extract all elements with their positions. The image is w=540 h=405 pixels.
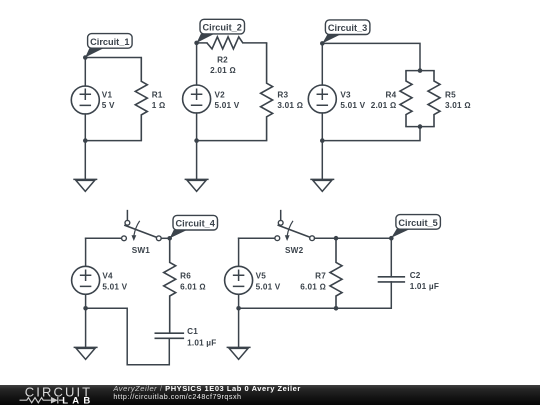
svg-text:Circuit_5: Circuit_5 bbox=[398, 218, 437, 228]
voltage source V2 bbox=[183, 85, 240, 113]
svg-text:1 Ω: 1 Ω bbox=[152, 101, 166, 110]
wire ground lead circuit 1 bbox=[84, 141, 86, 180]
ground circuit 3 bbox=[310, 179, 334, 191]
wire V1 bottom lead bbox=[84, 114, 86, 141]
svg-text:3.01 Ω: 3.01 Ω bbox=[445, 101, 471, 110]
node A3 (top of circuit 3) bbox=[320, 41, 325, 46]
wire C2 bottom lead bbox=[239, 282, 392, 308]
node B1 (bottom of circuit 1) bbox=[83, 138, 88, 143]
wire V5 to switch SW2 bbox=[239, 237, 275, 239]
svg-text:SW1: SW1 bbox=[132, 246, 151, 255]
node B5a (V5 bottom) bbox=[236, 306, 241, 311]
capacitor C1 bbox=[155, 327, 217, 347]
wire bottom rail circuit 2 bbox=[197, 140, 267, 142]
wire ground lead circuit 5 bbox=[238, 308, 240, 347]
svg-text:2.01 Ω: 2.01 Ω bbox=[210, 66, 236, 75]
resistor R1 bbox=[135, 58, 165, 141]
resistor R5 bbox=[428, 71, 471, 127]
wire top rail circuit 3 bbox=[322, 43, 420, 70]
resistor R7 bbox=[300, 238, 342, 308]
svg-text:http://circuitlab.com/c248cf79: http://circuitlab.com/c248cf79rqsxh bbox=[113, 392, 241, 401]
wire ground lead circuit 3 bbox=[321, 141, 323, 180]
resistor R6 bbox=[164, 238, 206, 333]
svg-text:V2: V2 bbox=[215, 90, 226, 99]
node P1 (parallel top) bbox=[418, 68, 423, 73]
svg-text:R4: R4 bbox=[386, 90, 397, 99]
node N5b (circuit 5 flag node) bbox=[389, 236, 394, 241]
label flag Circuit_4 bbox=[170, 215, 218, 238]
svg-text:Circuit_3: Circuit_3 bbox=[328, 23, 367, 33]
svg-text:6.01 Ω: 6.01 Ω bbox=[300, 282, 326, 291]
switch SW2 bbox=[275, 211, 315, 256]
wire parallel bottom bracket bbox=[406, 126, 434, 128]
svg-text:C1: C1 bbox=[187, 327, 198, 336]
svg-text:V1: V1 bbox=[102, 90, 113, 99]
wire R2 left lead bbox=[197, 42, 207, 44]
node A1 (top of circuit 1) bbox=[83, 55, 88, 60]
voltage source V1 bbox=[71, 86, 115, 114]
capacitor C2 bbox=[378, 238, 439, 291]
svg-text:5.01 V: 5.01 V bbox=[340, 101, 365, 110]
wire R2 right lead to right branch bbox=[243, 42, 267, 44]
label flag Circuit_3 bbox=[322, 20, 370, 44]
wire V3 bottom lead bbox=[321, 113, 323, 141]
svg-text:1.01 µF: 1.01 µF bbox=[410, 282, 439, 291]
CircuitLab logo wordmark bbox=[20, 385, 95, 405]
wire V2 bottom lead bbox=[196, 113, 198, 141]
svg-text:V5: V5 bbox=[256, 271, 267, 280]
wire ground lead circuit 2 bbox=[196, 141, 198, 180]
wire V4 top lead bbox=[85, 238, 87, 266]
svg-text:6.01 Ω: 6.01 Ω bbox=[180, 282, 206, 291]
svg-text:C2: C2 bbox=[410, 271, 421, 280]
wire SW1 to node bbox=[161, 237, 170, 239]
voltage source V5 bbox=[225, 266, 281, 294]
svg-text:R1: R1 bbox=[152, 90, 163, 99]
svg-text:R7: R7 bbox=[315, 271, 326, 280]
wire V2 top lead bbox=[196, 43, 198, 85]
wire V4 bottom lead bbox=[85, 294, 87, 308]
label flag Circuit_5 bbox=[391, 215, 440, 238]
label flag Circuit_1 bbox=[85, 34, 132, 58]
wire bottom rail circuit 3 bbox=[322, 127, 420, 141]
resistor R3 bbox=[261, 43, 304, 141]
svg-text:2.01 Ω: 2.01 Ω bbox=[371, 101, 397, 110]
ground circuit 5 bbox=[227, 347, 251, 359]
wire V4 to switch SW1 bbox=[86, 237, 122, 239]
svg-text:Circuit_4: Circuit_4 bbox=[176, 219, 216, 229]
ground circuit 2 bbox=[185, 179, 209, 191]
node B3 (bottom of circuit 3) bbox=[320, 138, 325, 143]
node N4 (circuit 4 flag node) bbox=[167, 236, 172, 241]
svg-text:R3: R3 bbox=[277, 90, 288, 99]
wire top rail circuit 1 bbox=[85, 57, 141, 59]
wire bottom rail circuit 1 bbox=[85, 140, 141, 142]
svg-text:1.01 µF: 1.01 µF bbox=[187, 338, 216, 347]
resistor R4 bbox=[371, 71, 412, 127]
wire C1 bottom return path bbox=[86, 308, 170, 365]
node B2 (bottom of circuit 2) bbox=[194, 138, 199, 143]
wire V5 bottom lead bbox=[238, 294, 240, 308]
resistor R2 bbox=[207, 37, 243, 75]
svg-text:3.01 Ω: 3.01 Ω bbox=[277, 101, 303, 110]
ground circuit 4 bbox=[74, 347, 98, 359]
node N5a (R7 top) bbox=[334, 236, 339, 241]
ground circuit 1 bbox=[73, 179, 97, 191]
svg-text:R6: R6 bbox=[180, 271, 191, 280]
label flag Circuit_2 bbox=[197, 19, 245, 43]
svg-text:5.01 V: 5.01 V bbox=[102, 282, 127, 291]
svg-text:5.01 V: 5.01 V bbox=[215, 101, 240, 110]
wire parallel top bracket bbox=[406, 70, 434, 72]
node A2 (top-left of circuit 2) bbox=[194, 41, 199, 46]
voltage source V3 bbox=[308, 85, 365, 113]
node B5b (R7 bottom) bbox=[334, 306, 339, 311]
svg-text:5.01 V: 5.01 V bbox=[256, 282, 281, 291]
svg-text:V3: V3 bbox=[340, 90, 351, 99]
wire V5 top lead bbox=[238, 238, 240, 266]
svg-text:5 V: 5 V bbox=[102, 101, 115, 110]
svg-text:SW2: SW2 bbox=[285, 246, 304, 255]
switch SW1 bbox=[122, 211, 162, 256]
wire ground lead circuit 4 bbox=[85, 308, 87, 347]
node P2 (parallel bottom) bbox=[418, 124, 423, 129]
node B4 (V4 bottom node) bbox=[83, 306, 88, 311]
wire SW2 to C2 top bbox=[315, 237, 392, 239]
svg-text:Circuit_2: Circuit_2 bbox=[203, 23, 242, 33]
svg-text:R5: R5 bbox=[445, 90, 456, 99]
wire V3 top lead bbox=[321, 43, 323, 85]
svg-text:R2: R2 bbox=[217, 55, 228, 64]
svg-text:LAB: LAB bbox=[62, 396, 94, 405]
footer bar background bbox=[0, 385, 540, 405]
svg-text:Circuit_1: Circuit_1 bbox=[90, 37, 129, 47]
voltage source V4 bbox=[72, 266, 128, 294]
svg-text:V4: V4 bbox=[102, 271, 113, 280]
wire V1 top lead bbox=[84, 58, 86, 87]
